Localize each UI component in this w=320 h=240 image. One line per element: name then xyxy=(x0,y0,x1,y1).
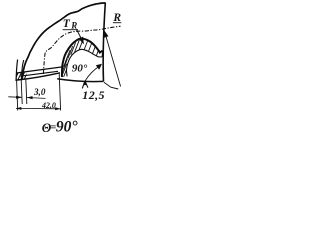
hatched wall band at left of bottom face xyxy=(15,68,30,80)
crescent: rotated mid-bend section outline (outer edge) xyxy=(62,39,103,78)
svg-text:12,5: 12,5 xyxy=(82,88,105,102)
bottom end face line xyxy=(15,73,60,81)
crescent right tip closure xyxy=(101,51,104,58)
svg-text:90°: 90° xyxy=(72,62,88,74)
90-degree angle arc with arrows xyxy=(85,66,100,82)
outer arc echo line (scan doubling) xyxy=(21,60,23,79)
svg-text:R: R xyxy=(112,12,121,24)
svg-text:R: R xyxy=(70,20,77,30)
crescent inner edge xyxy=(66,49,102,76)
bore far-lip line at bottom face xyxy=(16,67,61,73)
crescent hatching xyxy=(62,38,100,81)
T_R leader arrow to crescent xyxy=(77,29,82,38)
long leader from centerline crossing down to 12,5 xyxy=(105,32,121,87)
svg-text:42,0: 42,0 xyxy=(41,101,56,110)
bore near-lip line at bottom face xyxy=(20,71,58,76)
dimension 3,0 xyxy=(21,80,22,105)
svg-text:T: T xyxy=(63,18,71,30)
outer arc of elbow xyxy=(22,3,105,79)
dash-dot centerline: vertical + arc + horizontal xyxy=(43,26,120,74)
face ellipse left edge (near-vertical line at left) xyxy=(16,60,17,80)
dimension 42,0 xyxy=(17,80,18,111)
top end face line (radial, from arc apex to bend center) xyxy=(103,3,105,81)
svg-text:90°: 90° xyxy=(56,119,79,136)
short leader from bend center to 12,5 xyxy=(104,82,118,89)
svg-text:3,0: 3,0 xyxy=(33,87,46,97)
radial line from face to bend center xyxy=(57,79,103,82)
